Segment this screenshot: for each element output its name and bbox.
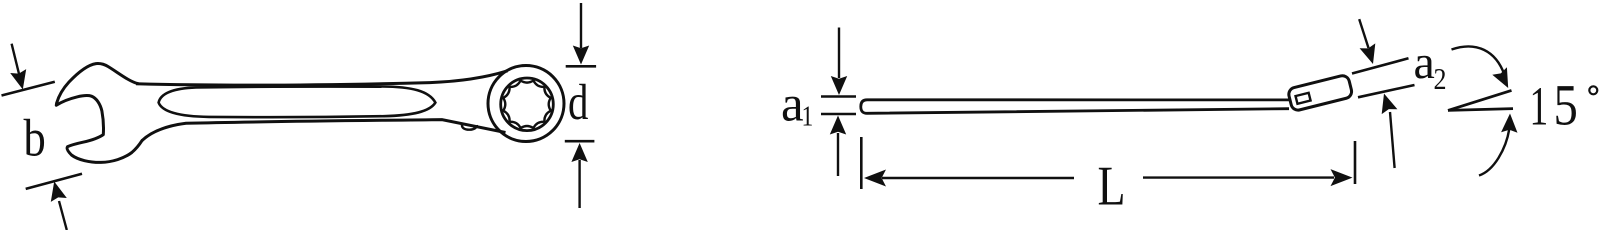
svg-text:5: 5	[1554, 73, 1578, 138]
dim d bottom tick	[565, 140, 595, 143]
dim b top arrow	[12, 44, 21, 80]
dim a2 bottom arrow	[1382, 94, 1398, 115]
wrench handle top edge	[136, 71, 508, 85]
dim a1 top arrow	[838, 28, 840, 79]
side-view shank bar	[861, 100, 1289, 114]
svg-text:2: 2	[1434, 62, 1447, 97]
handle recess oval	[159, 86, 436, 117]
dim d bottom arrow	[571, 143, 587, 162]
dim d top tick	[566, 65, 596, 68]
ring bore outer circle	[501, 78, 554, 131]
svg-text:b: b	[24, 108, 46, 168]
svg-text:a: a	[781, 77, 804, 133]
side-view head (tilted)	[1287, 74, 1353, 111]
dim d top arrow	[580, 3, 582, 48]
dim L right extension line	[1354, 141, 1357, 184]
dim b top tick	[2, 82, 55, 96]
ratchet lever bump	[462, 124, 477, 129]
svg-text:L: L	[1098, 155, 1126, 217]
dim b bottom arrow	[59, 201, 67, 230]
ring head outer circle	[488, 66, 564, 142]
degree symbol	[1589, 86, 1597, 94]
dim b bottom tick	[26, 174, 82, 189]
dim L left extension line	[860, 137, 863, 189]
dim L line right segment + arrow	[1143, 176, 1334, 178]
ring 12-point profile	[503, 81, 551, 129]
15deg top curved arrow	[1452, 46, 1505, 75]
svg-text:1: 1	[1530, 77, 1549, 138]
15deg wedge tilted line	[1448, 90, 1512, 110]
dim L line left segment + arrow	[864, 170, 886, 187]
wrench handle bottom edge	[142, 120, 506, 141]
svg-text:a: a	[1414, 36, 1435, 89]
svg-text:d: d	[568, 74, 588, 130]
wrench open-end head outline	[56, 64, 142, 163]
dim a1 bottom tick	[821, 113, 856, 116]
dim a2 lower tick	[1358, 85, 1415, 97]
15deg wedge horizontal line	[1448, 109, 1513, 111]
dim a2 upper tick	[1352, 58, 1409, 73]
15deg bottom curved arrow	[1479, 129, 1509, 176]
svg-text:1: 1	[802, 101, 814, 132]
dim a1 top tick	[821, 95, 856, 98]
dim a1 bottom arrow	[830, 116, 846, 135]
dim a2 top arrow	[1359, 19, 1368, 48]
